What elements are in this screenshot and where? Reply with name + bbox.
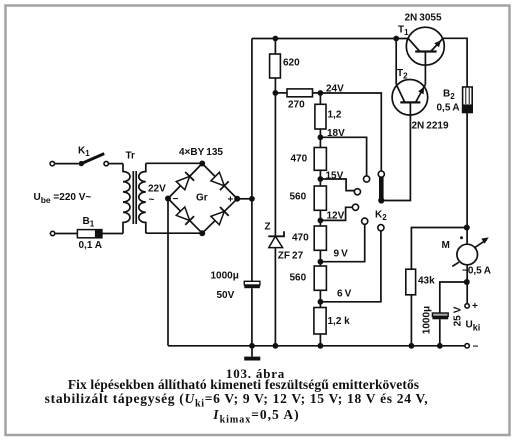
node T2 collector at top rail	[393, 36, 399, 42]
node output junction	[464, 279, 470, 285]
wire switch to transformer primary	[109, 163, 124, 165]
bridge rectifier Gr diamond	[168, 164, 237, 234]
wire input bottom to fuse B1	[55, 233, 77, 235]
wire T2 emitter to T1 base	[424, 52, 426, 85]
resistor 43k	[406, 269, 416, 295]
zener diode Z ZF27	[269, 236, 283, 247]
svg-text:22V: 22V	[148, 184, 166, 195]
resistor 470 lower	[314, 226, 326, 250]
svg-text:1,2: 1,2	[328, 110, 342, 121]
svg-text:B2: B2	[443, 89, 455, 102]
wire 43k branch horizontal	[411, 228, 466, 270]
wire zener branch	[274, 93, 276, 346]
node 12V tap	[318, 218, 324, 224]
svg-text:+: +	[228, 195, 234, 206]
diode bridge arm top-right	[211, 172, 224, 186]
wire secondary bottom to bridge	[146, 232, 202, 234]
resistor 1,2	[319, 93, 321, 104]
node 9V tap	[318, 259, 324, 265]
node K2 contact 9V	[362, 218, 368, 224]
resistor 1,2k	[314, 308, 326, 335]
resistor 560 upper	[314, 186, 326, 210]
wire output cap branch	[440, 282, 467, 313]
node bridge plus / main vertical junction	[249, 196, 255, 202]
svg-text:560: 560	[290, 192, 307, 203]
svg-text:50V: 50V	[217, 290, 235, 301]
node K2 contact 18V	[364, 176, 370, 182]
resistor 270	[275, 92, 287, 94]
svg-text:Tr: Tr	[126, 151, 136, 162]
svg-text:Z: Z	[265, 222, 271, 233]
node 43k at ground rail	[409, 343, 415, 349]
svg-text:270: 270	[288, 100, 305, 111]
wire bridge minus to ground rail	[167, 199, 169, 346]
svg-text:470: 470	[292, 233, 309, 244]
node 15V tap	[318, 176, 324, 182]
wire K2 wiper to T2 base	[381, 102, 410, 200]
diode bridge arm bottom-left	[176, 207, 189, 221]
svg-text:K2: K2	[375, 210, 387, 223]
node 18V tap	[318, 134, 324, 140]
wire meter to output junction	[466, 265, 468, 304]
resistor 560 lower	[314, 266, 326, 290]
svg-text:−: −	[173, 194, 179, 205]
svg-text:25 V: 25 V	[453, 306, 464, 326]
node output cap at ground rail	[437, 343, 443, 349]
diode bridge arm bottom-right	[211, 211, 224, 224]
wire T2 collector to top rail	[395, 39, 397, 85]
node 620 / 270 / zener junction	[273, 90, 279, 96]
node output terminal minus	[465, 344, 469, 348]
switch K1	[79, 154, 109, 167]
meter M 0,5A	[452, 236, 488, 266]
svg-text:470: 470	[291, 154, 308, 165]
wire 9V tap to K2 contact	[320, 224, 364, 261]
svg-text:9 V: 9 V	[334, 249, 349, 260]
node bridge left corner	[165, 196, 171, 202]
caption line 4	[0, 407, 514, 426]
wire 12V tap to K2 contact	[320, 207, 352, 220]
svg-text:Ube =220 V~: Ube =220 V~	[34, 192, 92, 205]
svg-text:+: +	[472, 301, 478, 312]
diode bridge arm top-left	[176, 176, 189, 189]
capacitor 1000u 25V electrolytic	[432, 313, 448, 319]
node bridge bottom corner	[199, 230, 205, 236]
svg-text:K1: K1	[78, 146, 90, 159]
node zener at ground rail	[273, 343, 279, 349]
node K2 contact 12V	[352, 204, 358, 210]
node ladder at ground rail	[318, 343, 324, 349]
svg-text:1,2 k: 1,2 k	[328, 316, 351, 327]
svg-text:620: 620	[283, 58, 300, 69]
capacitor 1000u 50V electrolytic	[244, 281, 260, 288]
wire main vertical from bridge + to filter cap	[251, 39, 253, 346]
node input terminal bottom	[50, 231, 54, 235]
wire input top to switch	[55, 163, 79, 165]
wire fuse B2 down to meter	[466, 113, 468, 245]
transformer Tr secondary winding	[139, 163, 146, 233]
node K2 contact 24V (wiper top)	[378, 171, 384, 177]
svg-text:B1: B1	[83, 216, 95, 229]
svg-text:ZF 27: ZF 27	[278, 251, 304, 262]
svg-text:2N 3055: 2N 3055	[405, 13, 442, 24]
ground symbol	[251, 346, 253, 357]
wire fuse B1 to transformer primary	[102, 233, 123, 235]
resistor 470 upper	[314, 148, 326, 171]
transformer core	[133, 171, 136, 224]
svg-text:4×BY 135: 4×BY 135	[179, 147, 223, 158]
transistor T2 2N2219	[392, 80, 428, 116]
wire 18V tap to K2 contact	[320, 137, 366, 176]
wire bridge plus to main vertical	[237, 198, 252, 200]
svg-text:6 V: 6 V	[337, 289, 352, 300]
node K2 contact 6V	[378, 225, 384, 231]
node 6V tap	[318, 299, 324, 305]
fuse B1 0,1A	[77, 230, 102, 238]
svg-text:T1: T1	[398, 25, 409, 38]
node meter top junction (43k branch)	[464, 225, 470, 231]
node bridge top corner	[199, 161, 205, 167]
node K2 contact 15V	[354, 189, 360, 195]
node bridge right corner	[234, 196, 240, 202]
svg-text:1000μ: 1000μ	[422, 306, 433, 334]
node filter cap at ground rail	[249, 343, 255, 349]
switch K2 wiper bar	[379, 177, 384, 201]
svg-text:~: ~	[149, 195, 155, 206]
resistor 620	[274, 39, 276, 55]
wire 6V tap to K2 contact	[320, 231, 381, 302]
fuse B2 0,5A	[463, 87, 473, 113]
node output terminal plus	[465, 304, 469, 308]
svg-text:2N 2219: 2N 2219	[412, 121, 449, 132]
wire 24V tap to K2	[320, 93, 381, 171]
wire T1 emitter to fuse B2	[443, 38, 467, 87]
svg-text:0,1 A: 0,1 A	[79, 240, 103, 251]
node 24V tap	[318, 90, 324, 96]
caption line 3	[0, 391, 494, 410]
svg-text:43k: 43k	[418, 276, 435, 287]
svg-text:−0,5 A: −0,5 A	[462, 266, 491, 277]
transistor T1 2N3055	[406, 27, 444, 65]
node top rail to 620	[273, 36, 279, 42]
wire 43k to ground rail	[410, 295, 412, 346]
svg-text:−: −	[473, 342, 479, 353]
svg-text:560: 560	[290, 273, 307, 284]
node K2 wiper pivot	[378, 197, 384, 203]
caption line 2	[0, 377, 501, 393]
caption line 103. abra	[0, 366, 513, 382]
wire secondary top to bridge	[146, 162, 202, 164]
node input terminal top	[50, 161, 54, 165]
svg-text:T2: T2	[397, 68, 408, 81]
svg-text:1000μ: 1000μ	[211, 271, 239, 282]
wire bottom rail (ground)	[168, 345, 465, 347]
svg-text:Uki: Uki	[466, 320, 481, 333]
wire output cap to ground rail	[439, 319, 441, 346]
wire top rail (unregulated +)	[252, 38, 408, 40]
wire 15V tap to K2 contact	[320, 179, 354, 191]
transformer Tr primary winding	[123, 164, 130, 234]
svg-text:M: M	[442, 240, 450, 251]
svg-text:0,5 A: 0,5 A	[437, 103, 460, 114]
svg-text:Gr: Gr	[196, 193, 208, 204]
